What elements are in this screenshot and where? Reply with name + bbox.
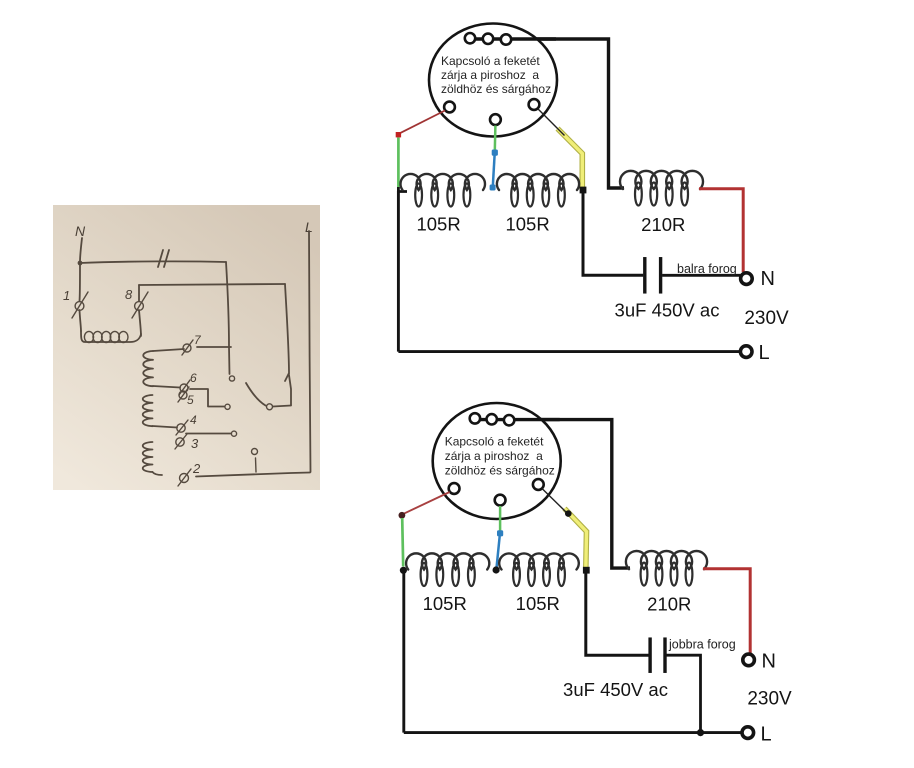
wire capacitor to L line (bottom circuit) <box>667 655 701 732</box>
tap 2 (sketch) <box>178 461 310 486</box>
svg-text:6: 6 <box>190 371 197 385</box>
blue tap square (bottom circuit) <box>497 530 503 536</box>
red wire to N (bottom circuit) <box>703 569 750 653</box>
label 230V (top circuit) <box>744 308 789 329</box>
switch pin green (bottom circuit) <box>495 495 506 506</box>
switch lever arc (sketch) <box>246 383 266 406</box>
wire second horizontal (sketch) <box>139 284 285 285</box>
label 210R (top circuit) <box>641 214 685 235</box>
svg-text:Kapcsoló a feketét: Kapcsoló a feketét <box>441 54 540 68</box>
svg-text:zárja a piroshoz a: zárja a piroshoz a <box>441 68 539 82</box>
svg-text:2: 2 <box>192 461 201 476</box>
svg-text:230V: 230V <box>747 689 792 710</box>
yellow wire (top circuit) <box>558 129 583 191</box>
wire left vertical (bottom circuit) <box>402 571 405 733</box>
wire contact bus segment (top circuit) <box>470 37 556 40</box>
blue tap square (top circuit) <box>492 150 498 156</box>
tap 5 (sketch) <box>178 387 224 407</box>
svg-text:zárja a piroshoz a: zárja a piroshoz a <box>445 449 543 463</box>
inductor 105R second (top circuit) <box>497 174 579 206</box>
node right junction (top circuit) <box>580 187 587 194</box>
wire switch top bus (top circuit) <box>466 39 624 188</box>
capacitor C 3uF (bottom circuit) <box>650 637 665 673</box>
inductor 105R second (bottom circuit) <box>499 553 579 586</box>
lever node dot (bottom circuit) <box>565 510 572 517</box>
switch pin red (top circuit) <box>444 102 455 113</box>
svg-text:210R: 210R <box>647 594 691 615</box>
wire L vertical (sketch) <box>309 231 311 472</box>
blue wire (bottom circuit) <box>496 536 499 569</box>
svg-text:zöldhöz és sárgához: zöldhöz és sárgához <box>441 82 551 96</box>
svg-text:3uF 450V ac: 3uF 450V ac <box>615 300 720 321</box>
svg-text:L: L <box>761 724 772 746</box>
svg-text:3uF 450V ac: 3uF 450V ac <box>563 679 668 700</box>
terminal N (bottom circuit) <box>743 654 755 666</box>
svg-text:N: N <box>761 268 775 290</box>
wire coil1 lead (top circuit) <box>398 187 407 192</box>
capacitor C 3uF (top circuit) <box>645 257 661 294</box>
contact 0 (sketch) <box>252 449 258 473</box>
svg-text:1: 1 <box>63 288 70 303</box>
switch pin black (top circuit) <box>529 99 540 110</box>
wire contact bus segment (bottom circuit) <box>475 418 560 421</box>
wire L line (top circuit) <box>398 350 739 353</box>
wire left vertical (top circuit) <box>397 191 400 352</box>
tap 4 (sketch) <box>176 413 231 435</box>
node L label (sketch) <box>305 219 313 235</box>
capacitor symbol (sketch) <box>158 250 169 267</box>
inductor 210R (top circuit) <box>620 171 703 206</box>
svg-text:230V: 230V <box>744 308 789 329</box>
label capacitor value (bottom circuit) <box>563 679 668 700</box>
label 105R (bottom circuit) <box>516 593 560 614</box>
switch top pin 2 (top circuit) <box>483 34 493 44</box>
label capacitor value (top circuit) <box>615 300 720 321</box>
node N label (sketch) <box>75 223 86 239</box>
red wire to N (top circuit) <box>699 189 743 272</box>
tap 6 (sketch) <box>179 371 197 395</box>
label N (top circuit) <box>761 268 775 290</box>
inductor horizontal (sketch) <box>81 331 141 343</box>
svg-text:Kapcsoló a feketét: Kapcsoló a feketét <box>445 435 544 449</box>
svg-text:3: 3 <box>191 436 199 451</box>
wire switch top bus (bottom circuit) <box>471 420 630 568</box>
red wire to switch (top circuit) <box>400 111 445 134</box>
svg-text:105R: 105R <box>505 214 549 235</box>
svg-text:balra forog: balra forog <box>677 262 737 276</box>
tap 7 (sketch) <box>182 333 231 355</box>
wire right vertical to common contact (sketch) <box>226 262 230 374</box>
tap 3 (sketch) <box>175 434 199 451</box>
switch lever line (bottom circuit) <box>542 489 566 513</box>
svg-text:210R: 210R <box>641 214 685 235</box>
photo of hand-drawn schematic <box>53 205 320 490</box>
blue wire (top circuit) <box>493 155 495 187</box>
switch caption (bottom circuit) <box>445 435 555 478</box>
rotary switch body (bottom circuit) <box>433 403 561 519</box>
yellow wire (bottom circuit) <box>565 509 587 570</box>
wire junction to capacitor (bottom circuit) <box>586 570 649 655</box>
switch top pin 2 (bottom circuit) <box>487 414 497 424</box>
contact 4 (sketch) <box>231 431 236 436</box>
label 105R (top circuit) <box>416 214 460 235</box>
switch pin black (bottom circuit) <box>533 479 544 490</box>
svg-text:8: 8 <box>125 287 133 302</box>
node between windings (bottom circuit) <box>493 566 500 573</box>
wire coil1 lead (bottom circuit) <box>400 567 407 574</box>
switch lever line (top circuit) <box>538 109 565 136</box>
wire junction to capacitor (top circuit) <box>583 190 643 275</box>
inductor 105R first (bottom circuit) <box>406 553 489 586</box>
switch pin green (top circuit) <box>490 114 501 125</box>
terminal L (bottom circuit) <box>742 727 754 739</box>
label forog (bottom circuit) <box>668 638 736 652</box>
label forog (top circuit) <box>677 262 737 276</box>
green wire left (bottom circuit) <box>402 518 403 567</box>
node between windings (top circuit) <box>490 185 496 191</box>
lever contact (sketch) <box>267 404 292 410</box>
label 230V (bottom circuit) <box>747 689 792 710</box>
wire top horizontal (sketch) <box>80 261 226 263</box>
inductor 210R (bottom circuit) <box>626 551 707 586</box>
label 105R (bottom circuit) <box>423 593 467 614</box>
green wire middle (bottom circuit) <box>499 506 502 531</box>
rotary switch body (top circuit) <box>429 24 557 137</box>
red wire to switch (bottom circuit) <box>404 492 450 514</box>
switch 1 (sketch) <box>72 265 88 331</box>
terminal L (top circuit) <box>740 346 752 358</box>
svg-text:L: L <box>759 342 770 364</box>
green wire left (top circuit) <box>397 138 400 189</box>
green wire middle (top circuit) <box>494 126 497 152</box>
switch 1 label (sketch) <box>63 288 70 303</box>
wire N lead (sketch) <box>80 238 82 262</box>
svg-text:4: 4 <box>190 413 197 427</box>
svg-text:N: N <box>762 651 776 673</box>
node right junction (bottom circuit) <box>583 567 590 574</box>
switch top pin 1 (top circuit) <box>465 33 475 43</box>
wire lever vertical (sketch) <box>285 284 291 405</box>
switch top pin 1 (bottom circuit) <box>470 413 480 423</box>
svg-text:jobbra forog: jobbra forog <box>668 638 736 652</box>
switch top pin 3 (top circuit) <box>501 34 511 44</box>
dark node dot (bottom circuit) <box>399 512 406 519</box>
wire L line (bottom circuit) <box>404 731 742 734</box>
switch 8 label (sketch) <box>125 287 133 302</box>
label 210R (bottom circuit) <box>647 594 691 615</box>
svg-text:5: 5 <box>187 393 194 407</box>
contact common (sketch) <box>229 376 234 381</box>
switch pin red (bottom circuit) <box>449 483 460 494</box>
label L (top circuit) <box>759 342 770 364</box>
label L (bottom circuit) <box>761 724 772 746</box>
svg-text:105R: 105R <box>416 214 460 235</box>
svg-text:zöldhöz és sárgához: zöldhöz és sárgához <box>445 464 555 478</box>
svg-text:N: N <box>75 223 86 239</box>
terminal N (top circuit) <box>741 273 753 285</box>
svg-text:105R: 105R <box>516 593 560 614</box>
junction N (sketch) <box>78 261 83 266</box>
node on L line (bottom circuit) <box>697 729 704 736</box>
contact 5 (sketch) <box>225 404 230 409</box>
switch 8 (sketch) <box>132 285 148 336</box>
inductor vertical winding (sketch) <box>143 349 184 475</box>
label N (bottom circuit) <box>762 651 776 673</box>
switch caption (top circuit) <box>441 54 551 96</box>
switch top pin 3 (bottom circuit) <box>504 415 514 425</box>
svg-text:105R: 105R <box>423 593 467 614</box>
wire capacitor to N (top circuit) <box>662 274 740 277</box>
red terminal square (top circuit) <box>396 132 401 137</box>
label 105R (top circuit) <box>505 214 549 235</box>
inductor 105R first (top circuit) <box>401 174 486 207</box>
